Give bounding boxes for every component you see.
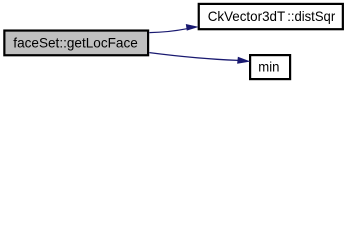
wire edge faceSet::getLocFace -> CkVector3dT::distSqr	[149, 25, 197, 33]
wire edge faceSet::getLocFace -> min	[149, 53, 248, 64]
svg-text:min: min	[258, 59, 279, 75]
svg-text:faceSet::getLocFace: faceSet::getLocFace	[13, 34, 138, 50]
node min	[250, 55, 290, 79]
node faceSet::getLocFace	[4, 31, 148, 56]
svg-text:CkVector3dT::distSqr: CkVector3dT::distSqr	[208, 8, 336, 24]
node CkVector3dT::distSqr	[199, 4, 343, 29]
